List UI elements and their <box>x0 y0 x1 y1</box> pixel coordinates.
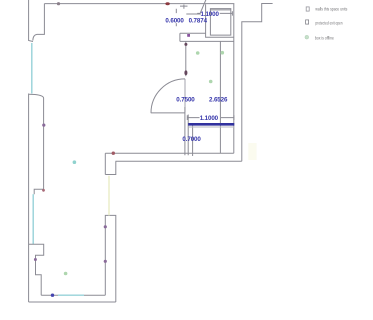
window W3 glass line <box>58 294 84 296</box>
wall top main <box>44 3 234 5</box>
svg-text:0.6000: 0.6000 <box>165 18 184 25</box>
wall bottom inner <box>41 294 105 296</box>
door swing arc <box>151 79 185 113</box>
dimension line 1.1000 lower <box>187 115 234 120</box>
wall highlighted selected (thick blue) <box>188 123 234 126</box>
wall east inner <box>233 4 235 154</box>
dimension line 1.1000 top <box>197 11 232 15</box>
vertex dot top wall left <box>57 2 60 5</box>
svg-text:0.7874: 0.7874 <box>189 18 208 25</box>
sensor dot room b <box>221 51 225 55</box>
vertex dot room corner purple <box>187 34 190 37</box>
wall room north upper <box>180 33 206 41</box>
closet inner top second line <box>210 9 230 11</box>
wall bottom outer <box>29 301 116 303</box>
sensor dot bottom room green <box>64 272 68 276</box>
opening O1 pale line <box>108 176 110 216</box>
vertex dot left wall upper <box>42 124 45 127</box>
wall door south double <box>185 107 188 155</box>
vertex dot corridor wall a <box>104 225 107 228</box>
wall room north lower <box>180 40 234 42</box>
wall left inner mid segment <box>34 98 43 194</box>
dimension ext dashed 0.6000 <box>175 9 177 27</box>
interior line room divider <box>219 41 221 153</box>
svg-text:1.1000: 1.1000 <box>200 115 219 122</box>
wall left outer main segment <box>28 94 30 303</box>
wall left inner top segment <box>33 4 45 41</box>
wall corridor south outer <box>116 160 242 162</box>
wall cap below window W1 <box>29 94 44 98</box>
vertex dot corridor south <box>112 152 115 155</box>
wall east outer <box>242 4 273 162</box>
vertex dot pillar notch <box>34 258 37 261</box>
sensor dot room a <box>196 51 200 55</box>
faint highlight block <box>248 143 256 160</box>
dimension line v 0.7000 <box>192 125 194 156</box>
legend icon row3 circle <box>305 35 309 39</box>
svg-text:walls this space units: walls this space units <box>315 6 347 11</box>
legend icon row1 square <box>306 7 309 11</box>
vertex dot door jamb top <box>184 43 187 46</box>
vertex dot door jamb bottom <box>184 70 187 75</box>
vertex dot left wall jog <box>42 189 45 192</box>
wall selected lower edge <box>188 126 234 128</box>
vertex dot corridor wall b <box>104 260 107 263</box>
wall left outer top segment <box>29 0 33 42</box>
door sill line <box>151 112 185 114</box>
dimension line 0.7874 <box>180 5 201 15</box>
vertex dot bottom wall blue <box>51 294 54 297</box>
door leaf <box>184 79 186 113</box>
window W1 glass line <box>31 43 33 94</box>
wall pillar notch lower left <box>29 244 44 295</box>
dimension leader diagonal <box>200 0 206 13</box>
sensor dot room c <box>209 80 213 84</box>
wall corridor west outer <box>105 215 116 302</box>
svg-text:protected exit open: protected exit open <box>315 21 343 26</box>
svg-text:0.7000: 0.7000 <box>182 136 201 143</box>
svg-text:box is offline: box is offline <box>315 35 334 40</box>
window W2 glass line <box>32 194 34 244</box>
svg-text:0.7500: 0.7500 <box>176 96 195 103</box>
svg-text:2.6526: 2.6526 <box>209 96 228 103</box>
vertex dot top wall mid (red) <box>165 2 169 5</box>
legend icon row2 square <box>306 20 309 24</box>
closet outer box <box>206 4 234 37</box>
wall corridor west upper <box>105 153 116 174</box>
wall door jamb upper <box>185 41 187 76</box>
svg-text:1.1000: 1.1000 <box>201 11 220 18</box>
sensor dot left room teal <box>73 160 77 164</box>
wall corridor south inner <box>105 152 234 154</box>
closet inner box <box>210 9 230 35</box>
